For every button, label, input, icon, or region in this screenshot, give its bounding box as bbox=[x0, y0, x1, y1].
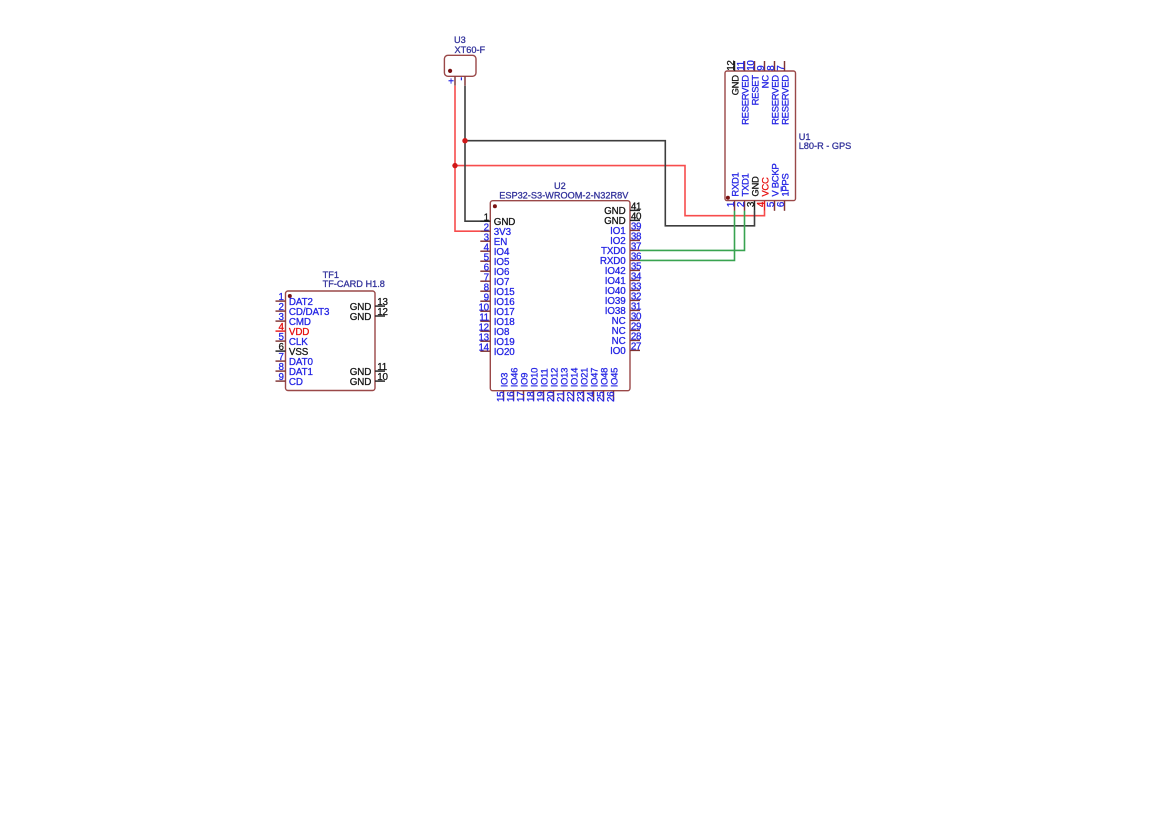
TF1 pin 3 (CMD) left bbox=[276, 312, 311, 328]
U2 pin 30 (NC) right bbox=[612, 312, 642, 328]
U2 pin 1 (GND) left bbox=[480, 212, 515, 228]
U2 pin 6 (IO6) left bbox=[480, 262, 510, 278]
U2 pin 26 (IO45) bottom bbox=[606, 368, 620, 402]
svg-text:U3: U3 bbox=[454, 35, 466, 45]
U2 pin 32 (IO39) right bbox=[605, 292, 641, 308]
U2 pin 39 (IO1) right bbox=[610, 222, 641, 238]
TF1 pin 7 (DAT0) left bbox=[276, 352, 314, 368]
TF1 pin 6 (VSS) left bbox=[276, 342, 309, 358]
U2 pin 29 (NC) right bbox=[612, 322, 642, 338]
U2 pin 41 (GND) right bbox=[604, 202, 641, 218]
TF1 pin 1 (DAT2) left bbox=[276, 292, 313, 308]
U3 pin-1 marker dot bbox=[448, 69, 452, 73]
U2 pin 37 (TXD0) right bbox=[601, 242, 641, 258]
svg-text:ESP32-S3-WROOM-2-N32R8V: ESP32-S3-WROOM-2-N32R8V bbox=[499, 190, 629, 200]
U2 pin 5 (IO5) left bbox=[480, 252, 510, 268]
U1 pin 9 (NC) top bbox=[756, 61, 771, 88]
U1 pin 8 (RESERVED) top bbox=[766, 61, 781, 125]
U1 pin 11 (RESERVED) top bbox=[736, 61, 751, 125]
svg-text:14: 14 bbox=[478, 342, 489, 353]
TF1 pin 12 (GND) right bbox=[350, 307, 388, 323]
connector U3 XT60-F body bbox=[444, 55, 476, 76]
U2 pin 12 (IO8) left bbox=[478, 322, 509, 338]
U2 pin 3 (EN) left bbox=[480, 232, 507, 248]
U2 pin 27 (IO0) right bbox=[610, 342, 641, 358]
svg-text:GND: GND bbox=[350, 312, 371, 323]
svg-text:10: 10 bbox=[377, 372, 388, 383]
svg-text:27: 27 bbox=[631, 342, 641, 353]
svg-text:1PPS: 1PPS bbox=[781, 174, 792, 197]
svg-text:RESERVED: RESERVED bbox=[780, 75, 791, 125]
U2 pin 10 (IO17) left bbox=[478, 302, 514, 318]
TF1 pin 13 (GND) right bbox=[350, 297, 389, 313]
U2 pin 35 (IO42) right bbox=[605, 262, 642, 278]
U1 pin 5 (V BCKP) bottom bbox=[766, 164, 781, 211]
svg-text:12: 12 bbox=[377, 307, 387, 318]
U2 pin 18 (IO10) bottom bbox=[526, 368, 540, 402]
U2 pin 15 (IO3) bottom bbox=[496, 373, 510, 402]
svg-text:GND: GND bbox=[350, 377, 371, 388]
U2 pin 19 (IO11) bottom bbox=[536, 369, 550, 402]
U2 pin 33 (IO40) right bbox=[605, 282, 642, 298]
svg-text:6: 6 bbox=[776, 201, 787, 207]
svg-text:26: 26 bbox=[606, 391, 617, 402]
wire VCC: U3 + pin down to U2 pin 2 (3V3) bbox=[455, 86, 480, 232]
U2 pin 9 (IO16) left bbox=[480, 292, 515, 308]
TF1 pin-1 marker dot bbox=[288, 294, 292, 298]
U2 pin 14 (IO20) left bbox=[478, 342, 515, 358]
U2 pin 11 (IO18) left bbox=[479, 312, 515, 328]
U1 pin 10 (RESET) top bbox=[746, 60, 761, 106]
U2 pin 17 (IO9) bottom bbox=[516, 373, 530, 402]
IC U1 L80-R GPS body bbox=[725, 71, 796, 201]
U2 pin 22 (IO14) bottom bbox=[566, 368, 580, 402]
connector TF1 TF-CARD body bbox=[286, 291, 376, 391]
svg-text:L80-R - GPS: L80-R - GPS bbox=[799, 141, 852, 151]
U2 pin 25 (IO48) bottom bbox=[596, 368, 610, 402]
TF1 pin 11 (GND) right bbox=[350, 362, 387, 378]
U2 pin 36 (RXD0) right bbox=[600, 252, 642, 268]
svg-text:IO20: IO20 bbox=[494, 347, 515, 358]
U2 pin 21 (IO13) bottom bbox=[556, 368, 570, 402]
svg-text:9: 9 bbox=[278, 372, 283, 383]
TF1 pin 4 (VDD) left bbox=[276, 322, 310, 338]
svg-text:+: + bbox=[448, 77, 454, 88]
wire VCC branch to U1 pin 4 (VCC) bbox=[455, 166, 765, 216]
U1 pin 1 (RXD1) bottom bbox=[726, 172, 741, 210]
svg-text:IO0: IO0 bbox=[610, 346, 626, 357]
svg-text:CD: CD bbox=[289, 377, 303, 388]
TF1 pin 5 (CLK) left bbox=[276, 332, 309, 348]
U2 pin 31 (IO38) right bbox=[605, 302, 641, 318]
U1 pin 2 (TXD1) bottom bbox=[736, 173, 751, 210]
U2 pin 4 (IO4) left bbox=[480, 242, 510, 258]
wire GND: U3 - pin down to U2 pin 1 (GND) bbox=[465, 86, 490, 222]
TF1 pin 10 (GND) right bbox=[350, 372, 389, 388]
IC U2 ESP32 body bbox=[490, 201, 630, 391]
svg-text:XT60-F: XT60-F bbox=[455, 45, 486, 55]
U2 pin-1 marker dot bbox=[493, 204, 497, 208]
U2 pin 16 (IO46) bottom bbox=[506, 368, 520, 402]
svg-text:7: 7 bbox=[776, 66, 787, 71]
svg-text:TF-CARD H1.8: TF-CARD H1.8 bbox=[323, 279, 385, 289]
wire TXD0: U2 pin 37 to U1 pin 2 (TXD1) bbox=[640, 211, 745, 251]
TF1 pin 8 (DAT1) left bbox=[276, 362, 313, 378]
U2 pin 7 (IO7) left bbox=[480, 272, 509, 288]
U2 pin 40 (GND) right bbox=[604, 212, 642, 228]
U1 pin 12 (GND) top bbox=[726, 60, 741, 95]
U1 pin 3 (GND) bottom bbox=[746, 176, 761, 211]
U1 pin 6 (1PPS) bottom bbox=[776, 174, 791, 211]
U2 pin 8 (IO15) left bbox=[480, 282, 515, 298]
U2 pin 24 (IO47) bottom bbox=[586, 368, 600, 402]
U3 pin - stub bbox=[464, 76, 466, 85]
U1 pin-1 marker dot bbox=[726, 196, 730, 200]
U2 pin 23 (IO21) bottom bbox=[576, 368, 590, 402]
U2 pin 38 (IO2) right bbox=[610, 232, 642, 248]
junction on GND net at (465,140) bbox=[462, 138, 467, 143]
U2 pin 2 (3V3) left bbox=[480, 222, 511, 238]
svg-text:IO45: IO45 bbox=[609, 368, 620, 387]
U3 pin - label bbox=[460, 77, 462, 80]
U1 pin 4 (VCC) bottom bbox=[756, 177, 771, 211]
wire RXD0: U2 pin 36 to U1 pin 1 (RXD1) bbox=[640, 211, 735, 261]
U2 pin 20 (IO12) bottom bbox=[546, 368, 560, 402]
U2 pin 28 (NC) right bbox=[612, 332, 642, 348]
junction on VCC net at (455,166) bbox=[452, 163, 457, 168]
wire GND branch to U1 pin 3 (GND) bbox=[465, 141, 755, 226]
TF1 pin 9 (CD) left bbox=[276, 372, 303, 388]
TF1 pin 2 (CD/DAT3) left bbox=[276, 302, 331, 318]
U2 pin 34 (IO41) right bbox=[605, 272, 642, 288]
U1 pin 7 (RESERVED) top bbox=[776, 61, 791, 125]
U3 pin + stub bbox=[454, 76, 456, 85]
U2 pin 13 (IO19) left bbox=[478, 332, 514, 348]
